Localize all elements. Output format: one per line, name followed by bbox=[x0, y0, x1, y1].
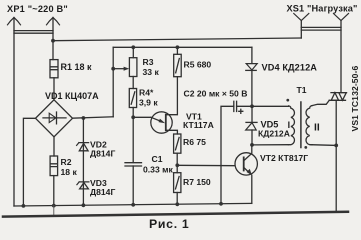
wire: top mains bus to XS1 bbox=[53, 38, 301, 41]
connector XS1 body (double line) bbox=[301, 27, 341, 30]
connector XS1 pin 1 (socket fork) bbox=[294, 14, 309, 21]
wire: XP1 pin2 down to R1 bbox=[52, 18, 54, 60]
wire: bus to R3 bbox=[132, 47, 134, 57]
svg-text:R1 18 к: R1 18 к bbox=[61, 62, 93, 72]
capacitor C1 bbox=[125, 163, 142, 166]
node: bus junction R7 bbox=[175, 202, 179, 206]
svg-text:КД212А: КД212А bbox=[258, 129, 290, 139]
svg-text:Т1: Т1 bbox=[297, 85, 307, 95]
node: bridge plus junction bbox=[82, 116, 86, 120]
diode VD5 bbox=[246, 122, 257, 130]
svg-text:R5 680: R5 680 bbox=[184, 60, 212, 70]
resistor R2 power marks bbox=[51, 164, 57, 167]
wire: XP1 pin1 down left side to bottom bus bbox=[13, 18, 15, 207]
wire: bus to R5 bbox=[176, 47, 178, 54]
wire: R2 to bottom bus bbox=[53, 176, 55, 206]
resistor R6 power mark bbox=[176, 137, 180, 149]
wire: R3 to R4 bbox=[132, 77, 134, 89]
node: bus junction bridge AC bbox=[22, 204, 26, 208]
wire: C1 to bottom bus bbox=[132, 166, 134, 205]
connector XP1 body (double line) bbox=[14, 31, 53, 34]
transformer T1 winding II bbox=[306, 106, 312, 145]
node: winding II / VS1 rail junction bbox=[334, 144, 338, 148]
svg-text:VD1 КЦ407А: VD1 КЦ407А bbox=[45, 91, 99, 101]
resistor R5 power mark bbox=[176, 59, 180, 73]
node: VD5/T1/VT2 collector junction bbox=[250, 143, 254, 147]
wire: winding I bottom to collector node bbox=[252, 144, 288, 146]
wire: second bus (oscillator supply) bbox=[113, 46, 252, 48]
wire: R4 to emitter node bbox=[132, 108, 134, 118]
svg-text:С1: С1 bbox=[152, 154, 163, 164]
node: C2/VD4/VD5 junction bbox=[250, 104, 254, 108]
wire: XS1 pin1 stem bbox=[300, 21, 302, 38]
wire: junction to T1 winding I top bbox=[252, 105, 288, 107]
node: junction mains/top bus bbox=[51, 39, 55, 43]
transistor VT1 (unijunction) bbox=[151, 112, 172, 133]
node: bus junction C1 bbox=[131, 203, 135, 207]
resistor R5 bbox=[174, 54, 182, 76]
svg-text:R6 75: R6 75 bbox=[183, 137, 206, 147]
frame bottom rule bbox=[3, 212, 348, 217]
wire: VT1 base1 up to R5 bbox=[166, 77, 178, 115]
wire: bottom common bus bbox=[14, 203, 252, 206]
wire: zener chain vertical bbox=[82, 118, 84, 205]
node: R3 top junction bbox=[131, 45, 135, 49]
wire: junction down to VD5 bbox=[251, 106, 253, 122]
wire: VD5 to collector node bbox=[251, 130, 253, 145]
svg-text:R2: R2 bbox=[61, 157, 72, 167]
transistor VT2 collector bbox=[244, 145, 252, 160]
svg-text:С2 20 мк × 50 В: С2 20 мк × 50 В bbox=[184, 89, 248, 99]
svg-text:I: I bbox=[288, 120, 290, 130]
connector XP1 pin 2 (plug arrow) bbox=[47, 18, 60, 25]
diode VD4 bbox=[246, 64, 257, 71]
connector XP1 pin 1 (plug arrow) bbox=[8, 18, 21, 25]
svg-text:33 к: 33 к bbox=[143, 67, 160, 77]
wire: R6 to R7 bbox=[176, 153, 178, 173]
wire: R7 to bottom bus bbox=[176, 193, 178, 205]
wire: C2 right to VD4 node bbox=[237, 105, 252, 107]
resistor R2 bbox=[50, 156, 58, 176]
svg-text:VS1 ТС132-50-6: VS1 ТС132-50-6 bbox=[350, 65, 360, 131]
wire: emitter node to VT1 bbox=[133, 116, 151, 118]
svg-text:Рис. 1: Рис. 1 bbox=[149, 217, 189, 230]
resistor R1 bbox=[50, 60, 58, 78]
triac VS1 bbox=[329, 93, 346, 101]
transformer T1 core bbox=[300, 102, 302, 148]
transistor VT2 emitter with arrow bbox=[244, 168, 250, 174]
wire: VS1 anode down to bottom right bbox=[335, 100, 337, 211]
zener diode VD3 bbox=[77, 182, 89, 189]
wire: bridge plus output to oscillator feed bbox=[73, 117, 114, 118]
svg-text:R7 150: R7 150 bbox=[183, 177, 211, 187]
svg-text:18 к: 18 к bbox=[61, 167, 78, 177]
zener diode VD2 bbox=[77, 143, 89, 151]
transistor VT1 emitter arrow bbox=[151, 117, 162, 121]
transformer T1 winding II start dot bbox=[304, 146, 307, 149]
wire: C2 left to minus rail bbox=[221, 106, 234, 203]
wire: XS1 pin2 stem down to triac VS1 bbox=[340, 21, 342, 93]
resistor R7 bbox=[174, 173, 181, 193]
label C2 plus bbox=[239, 109, 243, 113]
transformer T1 winding I start dot bbox=[286, 99, 289, 102]
wire: VT1 base2 down to R6 bbox=[166, 130, 178, 134]
svg-text:ХР1 "~220 В": ХР1 "~220 В" bbox=[7, 4, 68, 14]
wire: second bus corner down to VD4 bbox=[251, 47, 253, 63]
wire: bridge AC left to bottom bus bbox=[23, 118, 35, 206]
wire: bridge minus to R2 bbox=[53, 137, 55, 156]
capacitor C2 bbox=[234, 101, 237, 111]
resistor R1 power marks bbox=[51, 67, 57, 70]
resistor R4 bbox=[129, 89, 136, 108]
transistor VT2 base bar bbox=[243, 157, 245, 170]
node: VT1 emitter junction bbox=[131, 115, 135, 119]
transistor VT1 base bar bbox=[165, 115, 167, 131]
resistor R4 power mark bbox=[131, 92, 135, 104]
wire: R1 to bridge bbox=[53, 78, 55, 100]
resistor R3 (trimmer) bbox=[129, 58, 137, 77]
transformer T1 winding I bbox=[288, 106, 294, 145]
svg-text:Д814Г: Д814Г bbox=[90, 149, 115, 159]
wire: winding II bottom to triac cathode rail bbox=[311, 144, 336, 147]
svg-text:II: II bbox=[314, 122, 320, 133]
wire: winding II top to triac gate bbox=[312, 100, 330, 105]
wire: R6/R7 node to VT2 base bbox=[177, 164, 234, 166]
svg-text:R3: R3 bbox=[143, 57, 154, 67]
wire: emitter node down to C1 bbox=[132, 117, 134, 162]
svg-text:VD4 КД212А: VD4 КД212А bbox=[262, 63, 318, 73]
svg-text:0.33 мк: 0.33 мк bbox=[143, 165, 173, 175]
node: R6/R7 junction bbox=[175, 163, 179, 167]
diode bridge VD1 bbox=[36, 100, 73, 137]
node: bus junction C2 minus bbox=[219, 202, 223, 206]
connector XS1 pin 2 (socket fork) bbox=[334, 14, 349, 21]
wire: VT2 emitter to bottom bus bbox=[251, 175, 253, 203]
svg-text:XS1 "Нагрузка": XS1 "Нагрузка" bbox=[287, 4, 358, 14]
resistor R3 wiper arrow bbox=[113, 68, 125, 70]
transistor VT2 bbox=[235, 153, 257, 175]
svg-text:Д814Г: Д814Г bbox=[90, 187, 115, 197]
svg-text:КТ117А: КТ117А bbox=[183, 120, 214, 130]
diode bridge VD1 inner diode bbox=[43, 112, 66, 124]
wire: VD4 to C2 node bbox=[251, 70, 253, 106]
node: R3 wiper tap junction bbox=[111, 67, 115, 71]
svg-text:VT2 КТ817Г: VT2 КТ817Г bbox=[260, 153, 308, 163]
wire: supply riser to second bus bbox=[112, 47, 114, 117]
svg-text:R4*: R4* bbox=[139, 88, 154, 98]
resistor R7 power mark bbox=[176, 177, 180, 189]
node: bus junction R2 bbox=[52, 204, 56, 208]
svg-text:3,9 к: 3,9 к bbox=[139, 97, 158, 107]
node: R5 top junction bbox=[176, 45, 180, 49]
node: bus junction VD3 bbox=[82, 203, 86, 207]
resistor R6 bbox=[174, 134, 181, 153]
wire: R2 node stub to frame bbox=[53, 206, 55, 216]
